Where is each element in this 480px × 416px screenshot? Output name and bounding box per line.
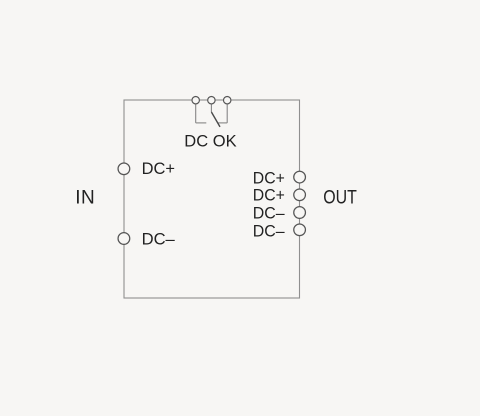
wire: right contact horizontal [218, 122, 227, 124]
terminal circle: input DC+ [118, 163, 130, 175]
terminal circle: output DC- (2) [294, 224, 306, 236]
wire: left contact horizontal [196, 122, 207, 124]
terminal circle: output DC+ (1) [294, 171, 306, 183]
wire: right contact vertical [226, 104, 228, 123]
svg-text:OUT: OUT [323, 187, 357, 208]
terminal circle: top signal contact 1 [192, 97, 199, 104]
wire: common stub from middle terminal [210, 104, 212, 112]
relay contact K1 (DC OK signal contact) [196, 104, 228, 123]
svg-text:DC+: DC+ [142, 159, 175, 178]
wire: enclosure box outline [124, 100, 300, 298]
terminal circle: output DC- (1) [294, 207, 306, 219]
svg-text:DC+: DC+ [253, 186, 285, 205]
switch blade of DC OK contact [211, 112, 220, 127]
terminal circle: top signal contact 3 [224, 97, 231, 104]
terminal circle: output DC+ (2) [294, 189, 306, 201]
terminal circle: input DC- [118, 233, 130, 245]
svg-text:DC OK: DC OK [184, 131, 237, 150]
svg-text:DC–: DC– [253, 204, 285, 223]
svg-text:DC+: DC+ [253, 168, 285, 187]
svg-text:DC–: DC– [253, 222, 285, 241]
terminal circle: top signal contact 2 [208, 97, 215, 104]
svg-text:DC–: DC– [142, 230, 176, 249]
wire: left contact vertical [195, 104, 197, 123]
svg-text:IN: IN [75, 187, 95, 208]
